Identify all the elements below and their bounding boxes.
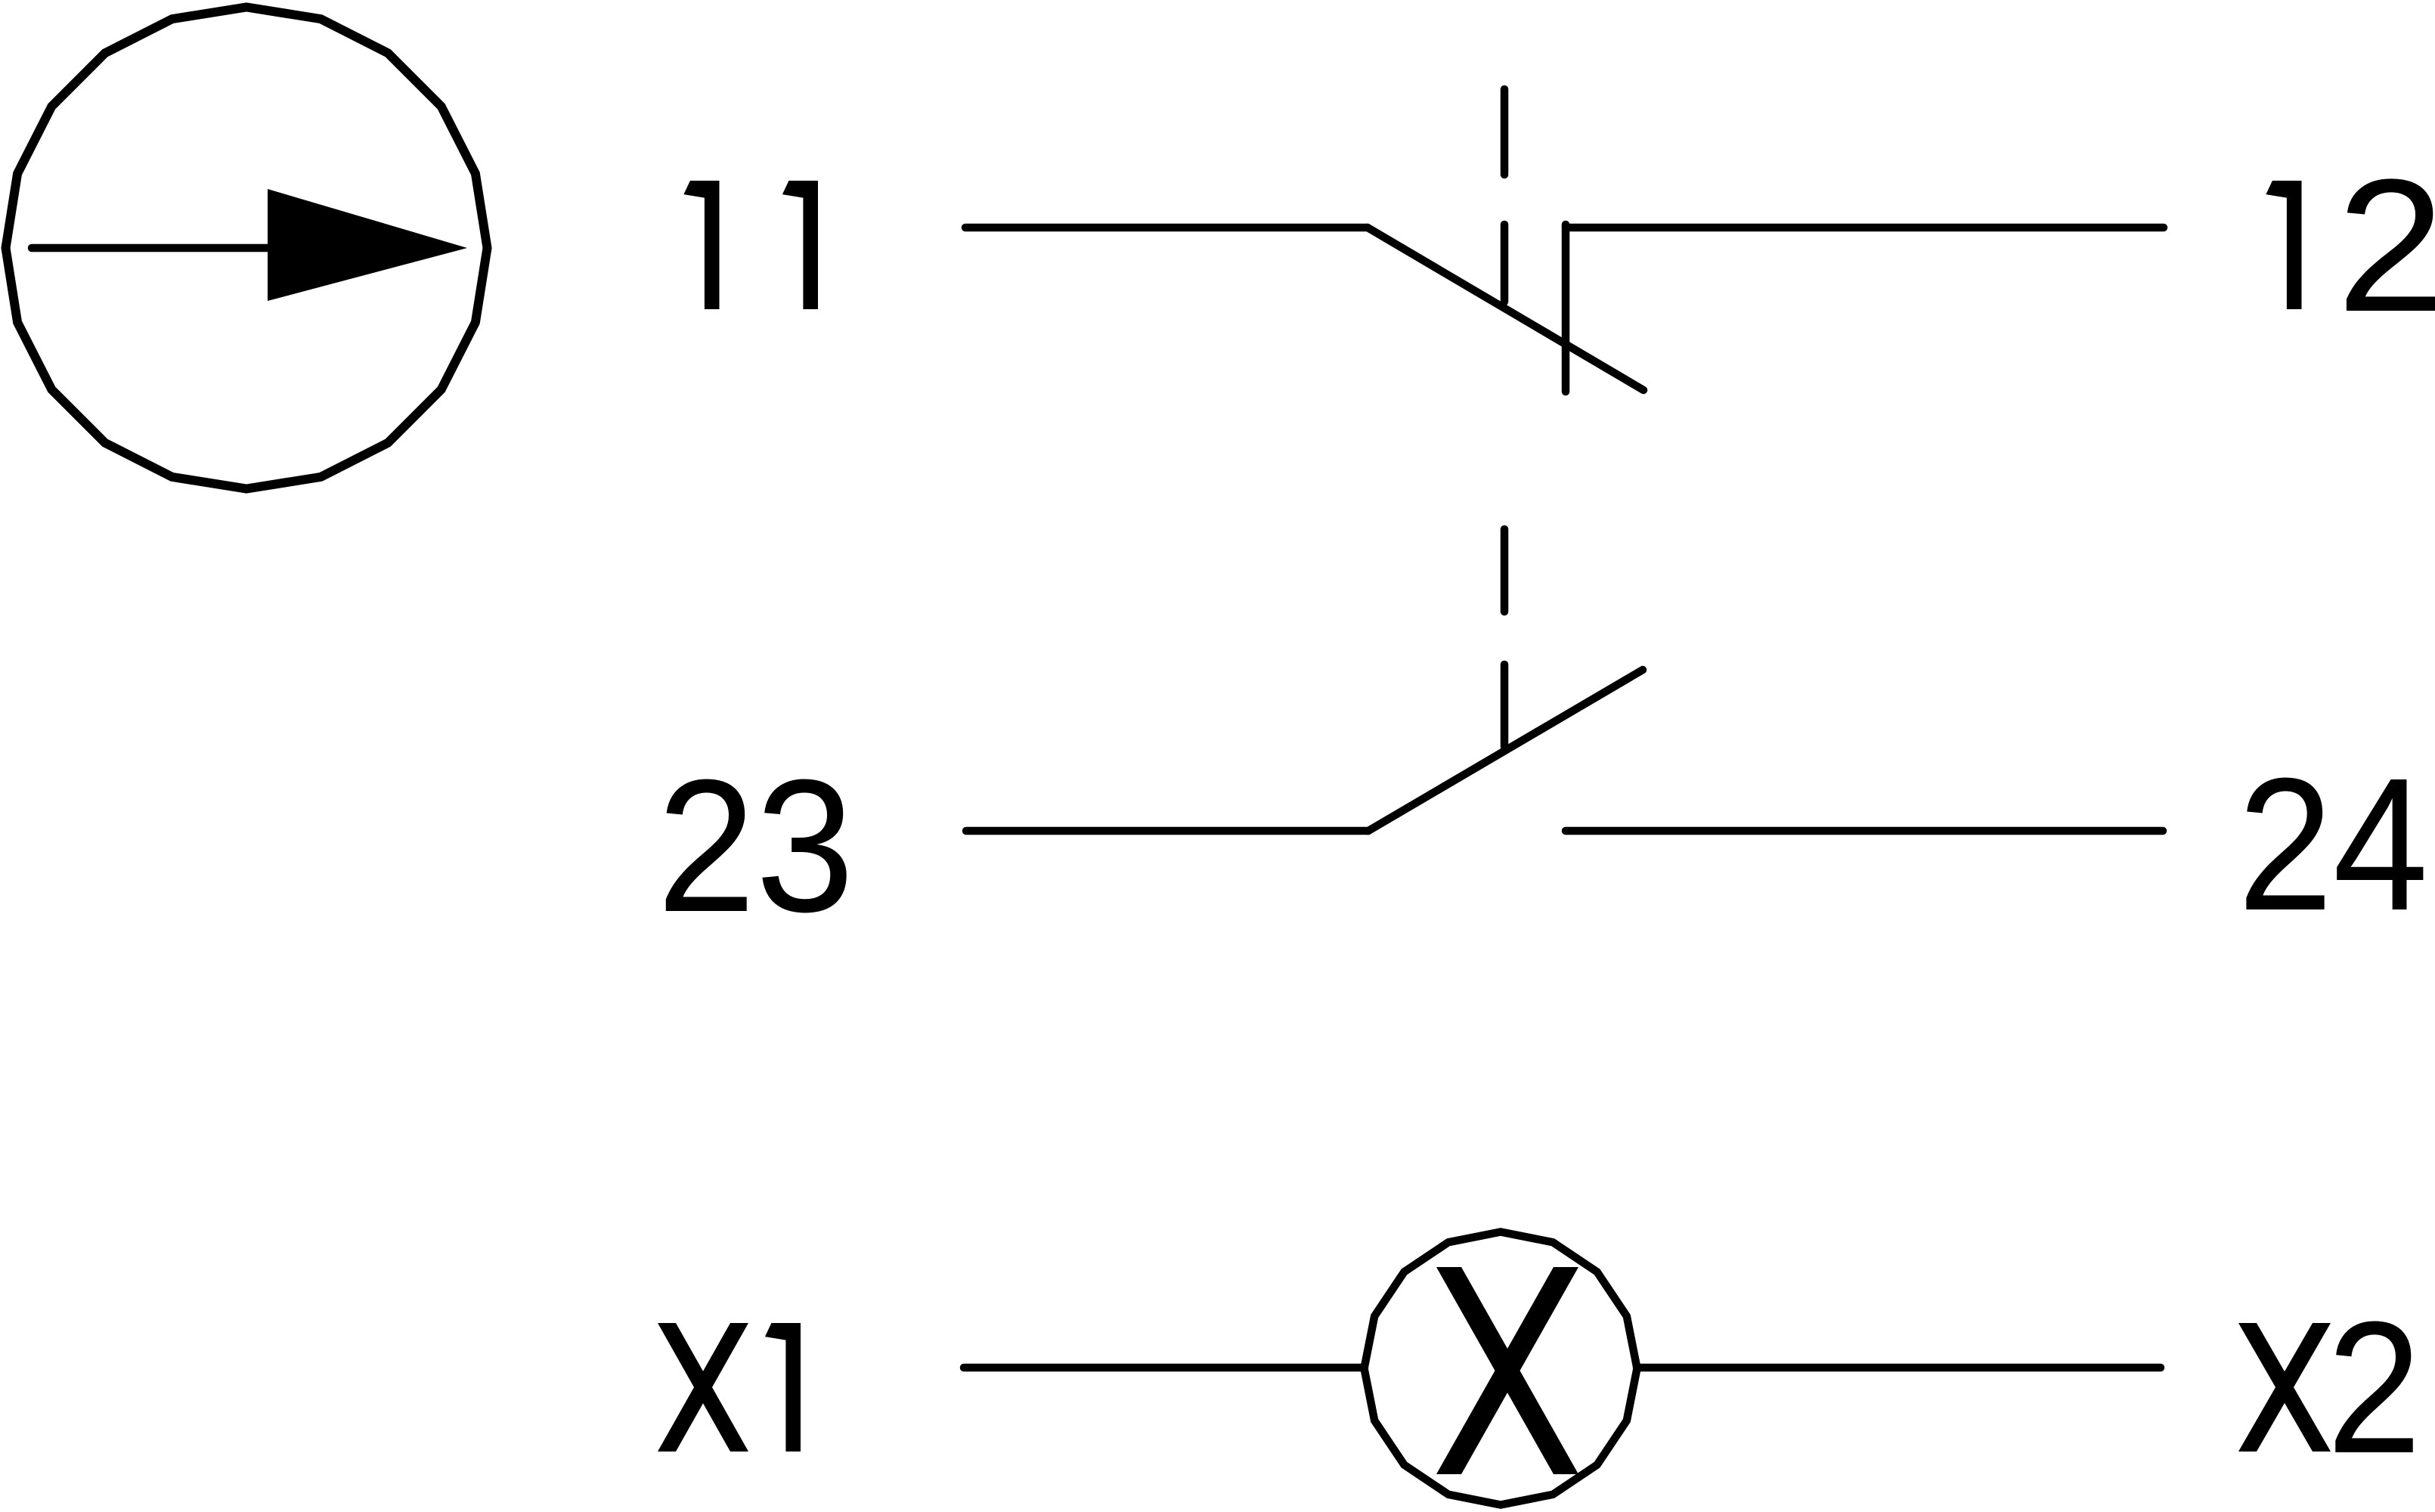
pushbutton actuator circle — [6, 8, 488, 489]
actuator arrow shaft — [32, 244, 393, 253]
terminal label X2 — [2238, 1323, 2331, 1452]
wire: terminal 11 lead — [965, 224, 1368, 232]
lamp circle — [1365, 1232, 1637, 1505]
wire: terminal 12 lead — [1566, 224, 2164, 232]
NO contact moving blade — [1368, 670, 1643, 831]
NC actuator link dash 2 — [1501, 225, 1509, 302]
NC actuator link dash 1 — [1501, 89, 1509, 175]
svg-text:2: 2 — [2327, 1282, 2421, 1492]
terminal label 11 — [683, 181, 719, 309]
svg-text:24: 24 — [2238, 739, 2428, 950]
NO actuator link dash 1 — [1501, 529, 1509, 612]
terminal label X1 — [658, 1323, 748, 1452]
terminal label 12 — [2266, 181, 2301, 309]
NO actuator link dash 2 — [1501, 665, 1509, 747]
svg-text:2: 2 — [2337, 141, 2435, 352]
wire: terminal 24 lead — [1566, 827, 2163, 835]
lamp X symbol — [1436, 1267, 1578, 1474]
svg-text:23: 23 — [657, 740, 854, 951]
wire: terminal 23 lead — [966, 827, 1368, 835]
wire: terminal X2 lead — [1637, 1364, 2161, 1372]
NC contact fixed bar — [1562, 225, 1570, 392]
actuator arrow head — [268, 189, 467, 301]
NC contact moving blade — [1368, 228, 1643, 390]
wire: terminal X1 lead — [964, 1364, 1365, 1372]
